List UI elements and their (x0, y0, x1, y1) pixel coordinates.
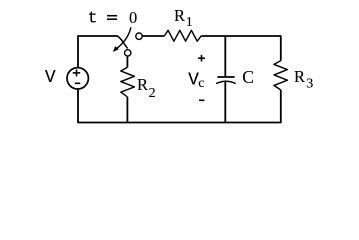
svg-text:R: R (137, 75, 148, 94)
svg-text:t: t (88, 10, 98, 29)
svg-text:R: R (174, 6, 185, 25)
svg-text:C: C (242, 67, 254, 87)
svg-text:1: 1 (186, 15, 193, 30)
svg-text:0: 0 (129, 8, 137, 27)
svg-text:c: c (198, 76, 204, 91)
svg-text:3: 3 (306, 77, 313, 92)
svg-text:2: 2 (149, 86, 156, 101)
svg-text:V: V (45, 68, 56, 88)
svg-text:R: R (294, 67, 305, 86)
